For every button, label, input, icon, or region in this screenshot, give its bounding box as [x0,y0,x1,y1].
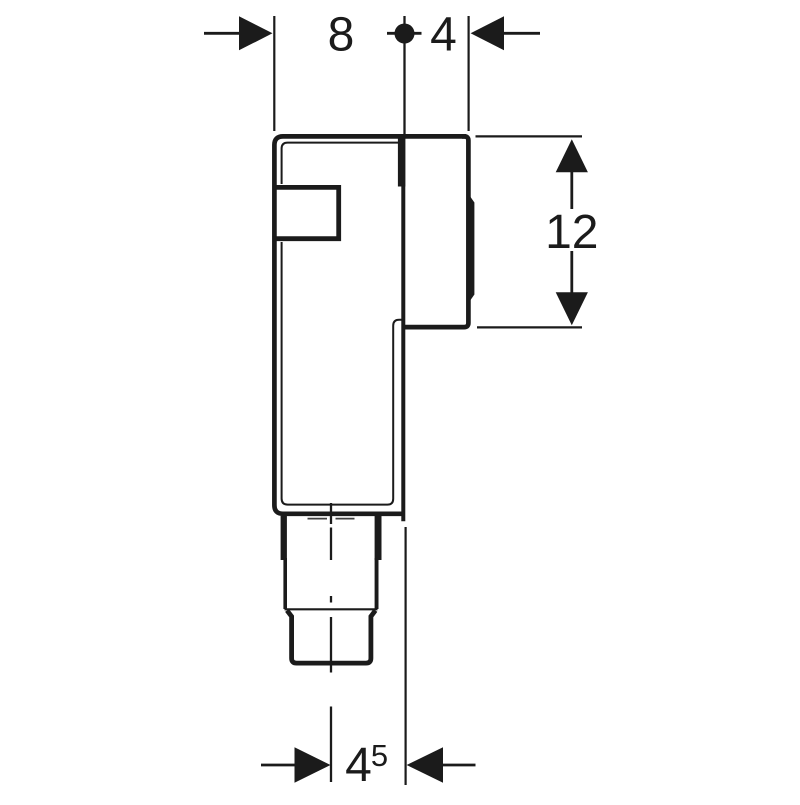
svg-text:8: 8 [328,9,355,62]
left notch rectangle [273,187,339,238]
flush valve upper flange right wall [375,516,382,560]
svg-text:12: 12 [545,206,598,259]
bottom dimension right extension line [405,527,407,785]
reference dot [395,24,415,44]
flush valve mid section right wall [375,558,379,609]
right dimension top extension line [476,135,583,137]
dot cross horizontal tick [387,32,422,35]
svg-text:4: 4 [345,739,372,792]
top dimension left arrowhead [239,16,273,50]
bottom dimension right arrowhead [407,747,443,782]
text 12 background [545,209,599,251]
rear block right and bottom outline [404,136,469,327]
valve inlet inner edge left [308,518,328,520]
center line lower segment [330,707,332,783]
cistern body outer outline left/top [274,136,466,513]
right dimension bottom extension line [477,326,582,328]
inner wall line top [282,143,400,184]
center line dash 1 [330,528,332,561]
flush valve upper flange left wall [281,516,287,560]
right dimension down arrowhead [556,292,588,325]
bottom dimension tail line right [442,764,476,767]
top dimension right arrowhead [471,16,504,50]
inner wall contour left-bottom-back [282,242,402,505]
body divider thick vertical line [401,137,405,521]
center line dot [330,596,332,603]
shoulder line above outlet [285,608,378,610]
center line tick at body bottom [330,503,332,524]
center line dash 2 [330,617,332,673]
right side clip bump [470,197,474,301]
top dimension left extension line [273,16,275,131]
top dimension tail line left [204,32,242,35]
right dimension line [570,170,573,296]
divider wide upper segment [398,137,405,187]
top dimension tail line right [503,32,540,35]
svg-text:5: 5 [371,738,388,773]
bottom dimension tail line left [261,764,296,767]
leader line through dot down to body [403,16,405,136]
valve inlet inner edge right [336,518,355,520]
top dimension right extension line [468,16,470,131]
svg-text:4: 4 [430,9,457,62]
outlet pipe outline [287,610,375,663]
bottom dimension left arrowhead [295,747,331,782]
right dimension up arrowhead [556,139,588,172]
flush valve mid section left wall [283,558,287,609]
